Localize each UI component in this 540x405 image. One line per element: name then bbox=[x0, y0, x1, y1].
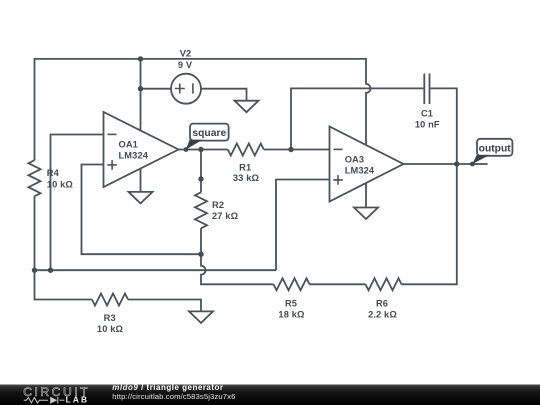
svg-text:9 V: 9 V bbox=[178, 60, 193, 70]
svg-text:R3: R3 bbox=[104, 313, 116, 323]
svg-text:http://circuitlab.com/c583s5j3: http://circuitlab.com/c583s5j3zu7x6 bbox=[112, 392, 235, 401]
svg-text:33 kΩ: 33 kΩ bbox=[233, 173, 260, 183]
svg-text:LM324: LM324 bbox=[119, 151, 149, 161]
svg-text:27 kΩ: 27 kΩ bbox=[212, 211, 239, 221]
svg-text:LM324: LM324 bbox=[345, 166, 375, 176]
svg-text:mldo9 / triangle generator: mldo9 / triangle generator bbox=[112, 383, 223, 392]
svg-text:R5: R5 bbox=[285, 298, 297, 308]
svg-text:square: square bbox=[192, 128, 226, 139]
svg-text:18 kΩ: 18 kΩ bbox=[278, 309, 305, 319]
svg-text:OA1: OA1 bbox=[119, 139, 138, 149]
svg-text:V2: V2 bbox=[180, 48, 192, 58]
svg-text:R2: R2 bbox=[212, 200, 224, 210]
svg-text:C1: C1 bbox=[421, 109, 433, 119]
svg-text:LAB: LAB bbox=[66, 394, 90, 404]
svg-text:output: output bbox=[479, 143, 512, 154]
svg-text:R6: R6 bbox=[376, 298, 388, 308]
svg-text:OA3: OA3 bbox=[345, 154, 364, 164]
svg-text:10 kΩ: 10 kΩ bbox=[97, 324, 124, 334]
svg-text:R4: R4 bbox=[47, 168, 60, 178]
svg-text:R1: R1 bbox=[239, 163, 251, 173]
svg-text:10 nF: 10 nF bbox=[415, 120, 440, 130]
svg-text:10 kΩ: 10 kΩ bbox=[47, 179, 74, 189]
svg-text:2.2 kΩ: 2.2 kΩ bbox=[368, 309, 397, 319]
